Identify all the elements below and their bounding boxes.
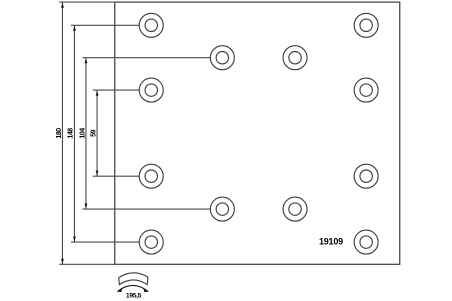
hole D4 xyxy=(354,230,378,254)
dimension line 104 xyxy=(85,58,87,209)
svg-text:195,5: 195,5 xyxy=(126,293,142,300)
leader line hole A2 xyxy=(93,89,140,91)
svg-text:59: 59 xyxy=(90,129,97,136)
hole D3 xyxy=(354,164,378,188)
arrow 104 bottom xyxy=(85,204,88,209)
lining outline rectangle xyxy=(115,2,400,264)
svg-text:104: 104 xyxy=(79,128,86,139)
svg-text:148: 148 xyxy=(68,128,75,139)
hole A2 xyxy=(139,78,163,102)
hole C1 xyxy=(283,46,307,70)
arrow 148 bottom xyxy=(73,237,76,242)
arrow 180 bottom xyxy=(61,259,64,264)
hole D2 xyxy=(354,78,378,102)
dimension line 148 xyxy=(73,25,75,242)
arc section symbol xyxy=(119,273,148,285)
arrow 59 top xyxy=(96,90,99,95)
hole D1 xyxy=(354,13,378,37)
hole A3 xyxy=(139,164,163,188)
arrow 104 top xyxy=(85,58,88,63)
hole A1 xyxy=(139,13,163,37)
dimension line 180 xyxy=(61,2,63,264)
leader line hole B1 xyxy=(82,57,210,59)
arc dimension line xyxy=(117,285,148,291)
leader line hole B2 xyxy=(82,208,210,210)
arrow 148 top xyxy=(73,26,76,31)
hole C2 xyxy=(283,197,307,221)
leader line hole A3 xyxy=(93,175,140,177)
svg-text:19109: 19109 xyxy=(319,237,343,247)
extension line top xyxy=(59,1,115,3)
dimension line 59 xyxy=(96,90,98,176)
arrow 59 bottom xyxy=(96,171,99,176)
leader line hole A1 xyxy=(71,24,140,26)
extension line bottom xyxy=(59,263,115,265)
arrow 180 top xyxy=(61,2,64,7)
hole B2 xyxy=(210,197,234,221)
leader line hole A4 xyxy=(71,241,140,243)
arc dimension arrow right xyxy=(143,288,148,293)
svg-text:180: 180 xyxy=(56,128,63,139)
hole A4 xyxy=(139,230,163,254)
arc dimension arrow left xyxy=(117,288,122,293)
hole B1 xyxy=(210,46,234,70)
